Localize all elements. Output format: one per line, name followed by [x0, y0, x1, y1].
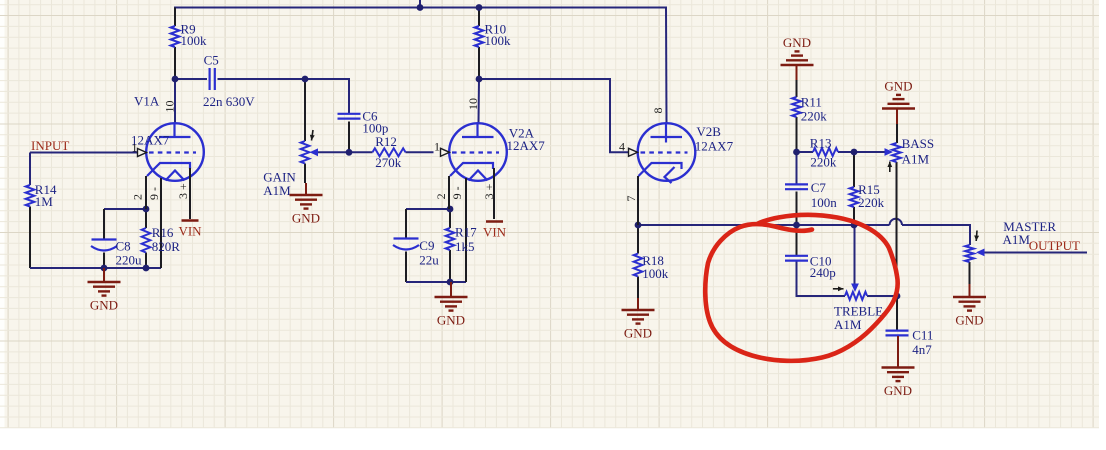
svg-text:GND: GND [884, 78, 912, 93]
left edge white strip [0, 0, 5, 428]
MASTER direction arrow [975, 231, 978, 242]
junction GAIN top node [302, 76, 309, 83]
pin 7 V2B cathode lead [637, 176, 639, 225]
ground GND below MASTER [969, 284, 971, 297]
svg-text:820R: 820R [152, 239, 181, 254]
wire V2B cathode node run to tone stack [638, 224, 890, 226]
wire BASS top lead from GND [896, 109, 898, 125]
wire R11 bottom lead to node [796, 117, 798, 152]
resistor R13 [813, 148, 838, 156]
resistor R18 [634, 254, 643, 277]
junction R16 ground node [143, 265, 150, 272]
wire V2A plate lead [478, 79, 481, 123]
red annotation circle [705, 215, 897, 361]
junction C6/R12/GAIN wiper node [346, 149, 353, 156]
pin 3 V1A lead [189, 168, 191, 219]
svg-text:GND: GND [90, 298, 118, 313]
wire R11 top lead from GND [796, 65, 798, 80]
ground GND below C11 [897, 336, 899, 368]
wire C8 top lead [103, 209, 105, 239]
wire V2A pin2 node to C9 branch [406, 208, 449, 210]
svg-text:12AX7: 12AX7 [695, 139, 734, 154]
wire C7 bottom lead to node [796, 192, 798, 226]
junction top bus at supply stub [417, 4, 424, 11]
svg-text:C9: C9 [419, 238, 434, 253]
svg-text:4: 4 [619, 140, 625, 154]
junction R13/R15/BASS node [851, 149, 858, 156]
wire node to R12 left [349, 151, 373, 153]
svg-text:7: 7 [624, 196, 638, 202]
junction R9/C5 node [172, 76, 179, 83]
capacitor C5 [209, 68, 211, 90]
svg-text:3 +: 3 + [482, 183, 496, 199]
wire R15 bottom lead to node [853, 207, 855, 225]
junction V2B cathode node [635, 222, 642, 229]
pin 3 V2A lead [493, 168, 495, 219]
capacitor C6 [338, 113, 361, 115]
svg-text:A1M: A1M [834, 317, 862, 332]
wire R9 bottom lead to node [174, 47, 176, 79]
pin 1 V2A grid [441, 148, 450, 156]
wire top supply stub [419, 0, 421, 8]
svg-text:V2B: V2B [696, 124, 721, 139]
ground GND above R11 [781, 64, 814, 66]
pin 9 V1A lead [160, 178, 162, 268]
svg-text:2: 2 [131, 194, 145, 200]
wire GAIN pot bottom lead [304, 164, 306, 184]
junction R11/R13 node [793, 149, 800, 156]
svg-text:22u: 22u [419, 252, 439, 267]
pin 2 V2A lead [448, 176, 450, 209]
GAIN direction arrow [312, 130, 314, 141]
wire R17 bottom lead [449, 250, 451, 282]
wire node to R13 left [797, 151, 814, 153]
svg-text:9 -: 9 - [450, 186, 464, 199]
wire tone stack to MASTER corner [902, 225, 970, 245]
power port VIN at V1A [182, 219, 199, 222]
svg-text:R16: R16 [152, 225, 174, 240]
svg-text:270k: 270k [375, 155, 402, 170]
pin 9 V2A lead [465, 178, 467, 282]
wire top supply bus [174, 7, 667, 9]
svg-text:220k: 220k [801, 109, 828, 124]
junction TREBLE/BASS/C11 node [894, 293, 901, 300]
pin 2 V1A lead [145, 176, 147, 209]
power port VIN at V2A [486, 220, 503, 223]
wire C8 bottom lead [103, 253, 105, 269]
svg-text:R17: R17 [455, 225, 477, 240]
wire hop over BASS lead [890, 219, 903, 225]
resistor R15 [850, 187, 859, 207]
resistor R11 [792, 97, 801, 117]
svg-text:100k: 100k [642, 266, 669, 281]
potentiometer BASS [892, 143, 901, 162]
potentiometer TREBLE [845, 292, 867, 300]
resistor R17 [446, 228, 455, 250]
junction R17 ground node [447, 279, 454, 286]
wire C9 bottom lead [405, 252, 407, 283]
wire node to C5 left plate [175, 78, 207, 80]
svg-text:R12: R12 [375, 134, 397, 149]
svg-text:A1M: A1M [263, 183, 291, 198]
wire GAIN pot top lead [304, 79, 306, 141]
svg-text:C11: C11 [912, 328, 933, 343]
svg-text:100n: 100n [811, 195, 838, 210]
ground GND above BASS [882, 107, 915, 109]
junction R15/TREBLE wiper node [851, 222, 858, 229]
svg-text:240p: 240p [810, 265, 836, 280]
svg-text:22n 630V: 22n 630V [203, 94, 255, 109]
svg-text:BASS: BASS [902, 136, 935, 151]
BASS wiper arrow [885, 148, 894, 156]
capacitor C9 [394, 237, 419, 239]
resistor R9 [171, 26, 180, 47]
op-amp V2A triode [449, 123, 507, 181]
svg-text:GND: GND [783, 35, 811, 50]
wire R15 top lead [853, 152, 855, 187]
junction C7/C10 node [793, 222, 800, 229]
svg-text:GND: GND [292, 211, 320, 226]
capacitor C8 [92, 238, 117, 240]
svg-text:A1M: A1M [1003, 232, 1031, 247]
svg-text:C7: C7 [811, 180, 827, 195]
svg-text:OUTPUT: OUTPUT [1029, 238, 1080, 253]
junction V1A pin2 node [143, 206, 150, 213]
svg-text:1M: 1M [35, 194, 54, 209]
svg-text:INPUT: INPUT [31, 138, 69, 153]
wire V1A cathode ground rail [30, 267, 161, 269]
op-amp V2B triode [638, 123, 696, 181]
wire V1A plate lead [174, 79, 176, 123]
svg-text:C8: C8 [116, 239, 131, 254]
svg-text:VIN: VIN [483, 225, 507, 240]
svg-text:GND: GND [437, 313, 465, 328]
wire C9 top lead [405, 209, 407, 238]
svg-text:GND: GND [955, 313, 983, 328]
wire node to V2B grid run [479, 79, 629, 152]
svg-text:V1A: V1A [134, 93, 160, 108]
svg-text:C5: C5 [204, 52, 219, 67]
potentiometer MASTER [965, 245, 974, 262]
TREBLE wiper arrow [851, 284, 859, 293]
wire R10 top lead [478, 8, 480, 27]
GAIN wiper arrow [310, 148, 319, 156]
wire R16 top lead [145, 209, 147, 228]
op-amp V1A triode [146, 123, 204, 181]
wire MASTER pot bottom lead [969, 262, 971, 284]
wire GAIN wiper to node [318, 151, 350, 153]
wire node to BASS wiper [854, 151, 885, 153]
wire R16 bottom lead [145, 253, 147, 269]
wire INPUT net [30, 152, 138, 154]
svg-text:100k: 100k [181, 33, 208, 48]
capacitor C11 [886, 330, 909, 332]
wire C10 bottom to TREBLE left [797, 261, 846, 296]
pin 4 V2B grid [629, 148, 638, 156]
wire C10 top lead [796, 225, 798, 256]
MASTER wiper arrow [976, 249, 985, 257]
wire V1A pin2 node to C8 branch [104, 208, 146, 210]
wire TREBLE wiper drop [854, 225, 856, 284]
resistor R14 [26, 185, 35, 207]
wire C11 top lead [896, 296, 898, 330]
ground GND below R18 [637, 305, 639, 310]
svg-text:4n7: 4n7 [912, 342, 932, 357]
wire R9 top lead [174, 8, 176, 27]
junction V2A pin2 node [447, 206, 454, 213]
svg-text:1k5: 1k5 [455, 239, 475, 254]
svg-text:220k: 220k [810, 155, 837, 170]
svg-text:10: 10 [466, 98, 480, 110]
wire BASS bottom lead [896, 162, 898, 296]
wire INPUT corner down to R14 [29, 153, 31, 186]
node INPUT arrow [138, 149, 147, 157]
junction V2A plate node [476, 76, 483, 83]
ground GND below C8 [103, 268, 105, 282]
svg-text:3 +: 3 + [176, 183, 190, 199]
svg-text:2: 2 [434, 193, 448, 199]
TREBLE direction arrow [833, 288, 844, 290]
wire C6 bottom lead to node [348, 122, 350, 153]
wire TREBLE right lead to node [867, 295, 897, 297]
svg-text:GND: GND [624, 326, 652, 341]
BASS direction arrow [889, 162, 891, 173]
wire R18 top lead [637, 225, 639, 254]
resistor R10 [475, 26, 484, 47]
capacitor C10 [785, 255, 808, 257]
wire R17 top lead [449, 209, 451, 228]
resistor R16 [142, 228, 151, 253]
ground GND below R17 [450, 282, 452, 297]
wire C5 right plate to C6 corner [218, 79, 350, 113]
svg-text:VIN: VIN [178, 224, 202, 239]
junction top bus at R10 [476, 4, 483, 11]
svg-text:R13: R13 [810, 135, 832, 150]
wire R14 bottom lead [29, 207, 31, 269]
svg-text:8: 8 [651, 108, 665, 114]
wire R12 right to V2A grid [406, 151, 434, 153]
wire R10 bottom lead to node [478, 47, 480, 79]
ground GND below GAIN [305, 183, 307, 195]
wire node down to C7 [796, 152, 798, 184]
svg-text:100k: 100k [485, 33, 512, 48]
wire V2B plate drop from bus [665, 8, 668, 124]
svg-text:220k: 220k [858, 195, 885, 210]
svg-text:1: 1 [132, 141, 138, 155]
svg-text:9 -: 9 - [147, 187, 161, 200]
wire OUTPUT net [984, 252, 1087, 254]
capacitor C7 [785, 183, 808, 185]
svg-text:12AX7: 12AX7 [507, 138, 546, 153]
svg-text:R11: R11 [801, 95, 822, 110]
resistor R12 [373, 148, 406, 156]
svg-text:10: 10 [163, 101, 177, 113]
junction C8 ground node [101, 265, 108, 272]
svg-text:220u: 220u [116, 253, 143, 268]
wire V2A cathode ground rail [406, 281, 466, 283]
svg-text:1: 1 [434, 140, 440, 154]
potentiometer GAIN [301, 141, 310, 164]
wire R13 right to node [838, 151, 854, 153]
svg-text:A1M: A1M [902, 152, 930, 167]
wire R18 bottom lead [637, 277, 639, 299]
svg-text:GND: GND [884, 383, 912, 398]
